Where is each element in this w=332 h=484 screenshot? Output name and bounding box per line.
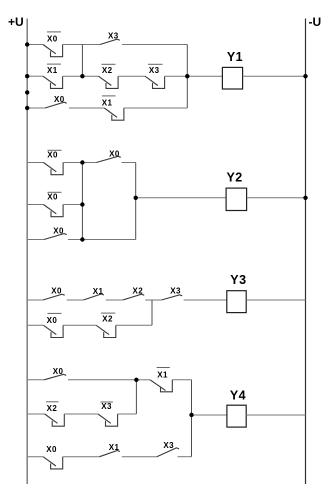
svg-text:X3: X3 bbox=[149, 66, 160, 75]
contact X0 NC (rung4 branchC) bbox=[43, 457, 63, 469]
svg-text:X0: X0 bbox=[46, 445, 57, 454]
label X0 (rung2 branchB) bbox=[47, 192, 61, 201]
svg-text:X1: X1 bbox=[93, 287, 104, 296]
contact X0 NO (rung4 branchA) bbox=[44, 374, 66, 380]
contact X0 NC (rung1 branch1) bbox=[43, 45, 63, 57]
contact X1 NO (rung3 branchA) bbox=[83, 294, 104, 300]
wire rung1 branch2: X2 to X3 bbox=[118, 75, 145, 77]
contact X0 NC (rung3 branchB) bbox=[44, 325, 64, 337]
label X0 (rung3 branchB) bbox=[47, 313, 62, 325]
svg-text:X0: X0 bbox=[47, 193, 58, 202]
wire rung3 branchB: X2 to corner x152 bbox=[116, 324, 152, 326]
wire rung3 branchA: rail to contact X0 bbox=[27, 299, 43, 301]
label X1 (rung4 branchC) bbox=[109, 443, 120, 452]
label X3 (rung4 branchC) bbox=[163, 441, 174, 450]
wire vertical link x191 (rung4) bbox=[191, 380, 193, 457]
contact X2 NC (rung3 branchB) bbox=[96, 325, 116, 337]
wire rung4: coil Y4 to right rail bbox=[246, 414, 305, 416]
junction branchA-vertical x82 (rung2) bbox=[80, 160, 84, 164]
svg-text:X2: X2 bbox=[102, 66, 113, 75]
wire rung2 branchA: X0NC to X0NO bbox=[63, 162, 96, 164]
junction rail-branch3 (rung1) bbox=[25, 106, 29, 110]
svg-text:X3: X3 bbox=[170, 287, 181, 296]
contact X1 NC (rung1 branch2) bbox=[43, 76, 63, 88]
wire rung2 branchC: rail to contact X0 bbox=[27, 239, 44, 241]
wire rung1 branch2: X3 to coil Y1 bbox=[165, 75, 223, 77]
label X2 (rung3 branchA) bbox=[133, 287, 144, 296]
label -U (right rail) bbox=[309, 15, 322, 29]
svg-text:Y3: Y3 bbox=[230, 273, 246, 287]
svg-text:X0: X0 bbox=[47, 151, 58, 160]
wire rung4 branchC: rail to contact X0 bbox=[27, 456, 43, 458]
contact X1 NO (rung4 branchC) bbox=[100, 451, 121, 457]
junction branchA-vertical x136 (rung4) bbox=[134, 378, 138, 382]
node output tap x135 (rung2) bbox=[134, 196, 138, 200]
label X0 (rung4 branchC) bbox=[46, 445, 57, 454]
contact X0 NC (rung2 branchA) bbox=[44, 163, 64, 175]
label X1 (rung1 branch2) bbox=[47, 64, 61, 75]
wire rung4 branchB: rail to contact X2 bbox=[27, 413, 45, 415]
wire rung3 branchA: X0 to X1 bbox=[67, 299, 84, 301]
wire vertical link x82 (rung2) bbox=[81, 163, 83, 240]
wire rung4 branchA: X1 to corner x191 bbox=[172, 379, 191, 381]
wire rung4 output to coil Y4 bbox=[192, 414, 227, 416]
contact X3 NC (rung1 branch2) bbox=[145, 76, 165, 88]
label X0 (rung3 branchA) bbox=[51, 287, 62, 296]
svg-text:-U: -U bbox=[309, 15, 322, 29]
wire rung3 branchA: X3 to coil Y3 bbox=[184, 299, 227, 301]
junction rail-branch2 (rung1) bbox=[25, 74, 29, 78]
label Y3 bbox=[230, 273, 246, 287]
contact X0 NO (rung1 branch3) bbox=[45, 102, 67, 108]
svg-text:X2: X2 bbox=[133, 287, 144, 296]
label X1 (rung3 branchA) bbox=[93, 287, 104, 296]
label Y4 bbox=[230, 389, 246, 403]
node B: output join x187 (rung1) bbox=[185, 74, 189, 78]
right power rail -U (vertical bus) bbox=[305, 19, 307, 484]
label X0 (rung4 branchA) bbox=[53, 367, 64, 376]
wire rung4 branchA: rail to contact X0 bbox=[27, 379, 44, 381]
wire rung2: coil Y2 to right rail bbox=[247, 197, 306, 199]
wire rung4 branchB: X3 to vertical x136 bbox=[118, 413, 137, 415]
svg-text:X3: X3 bbox=[101, 402, 112, 411]
svg-text:X3: X3 bbox=[163, 441, 174, 450]
svg-text:X1: X1 bbox=[102, 98, 113, 107]
wire rung2 branchA: X0 to right corner bbox=[122, 162, 136, 164]
svg-text:X3: X3 bbox=[108, 32, 119, 41]
coil Y1 bbox=[222, 67, 242, 89]
label Y1 bbox=[227, 50, 243, 64]
wire vertical link x136 (rung4) bbox=[135, 380, 137, 414]
svg-text:+U: +U bbox=[8, 15, 24, 29]
svg-text:X0: X0 bbox=[47, 34, 58, 43]
label X0 (rung2 branchA) bbox=[47, 150, 61, 159]
junction on left rail y92 (rung1) bbox=[25, 90, 29, 94]
label X1 (rung1 branch3) bbox=[102, 96, 116, 107]
contact X0 NO (rung2 branchA) bbox=[96, 156, 121, 162]
svg-text:X1: X1 bbox=[109, 443, 120, 452]
junction rail-branch1 (rung1) bbox=[25, 42, 29, 46]
contact X2 NC (rung4 branchB) bbox=[45, 414, 65, 426]
svg-text:X0: X0 bbox=[53, 367, 64, 376]
left power rail +U (vertical bus) bbox=[26, 19, 28, 484]
svg-text:X0: X0 bbox=[51, 287, 62, 296]
coil Y3 bbox=[227, 291, 246, 313]
wire rung2 branchC: X0 to right corner bbox=[68, 239, 136, 241]
wire rung1 branch2: rail to contact X1 bbox=[27, 75, 43, 77]
svg-text:X0: X0 bbox=[109, 149, 120, 158]
contact X3 NC (rung4 branchB) bbox=[98, 414, 118, 426]
label X0 (rung1 branch3) bbox=[54, 95, 65, 104]
junction branchC-vertical x82 (rung2) bbox=[80, 237, 84, 241]
wire rung1 branch1: X0 to X3 bbox=[63, 44, 100, 46]
contact X3 NO (rung1 branch1) bbox=[100, 39, 120, 44]
wire rung2 branchA: rail to contact X0 bbox=[27, 162, 43, 164]
wire rung4 branchB: X2 to X3 bbox=[64, 413, 98, 415]
label X3 (rung1 branch2) bbox=[148, 64, 163, 75]
junction coil Y1 to right rail bbox=[303, 74, 307, 78]
wire rung3 branchA: X2 to X3 bbox=[145, 299, 162, 301]
wire rung1 branch1: rail to contact X0 bbox=[27, 44, 43, 46]
contact X3 NO (rung3 branchA) bbox=[162, 295, 183, 300]
label Y2 bbox=[226, 170, 242, 184]
wire rung2 output to coil Y2 bbox=[136, 197, 226, 199]
junction branchB-vertical x82 (rung2) bbox=[80, 202, 84, 206]
wire rung3: coil Y3 to right rail bbox=[246, 299, 305, 301]
svg-text:X2: X2 bbox=[102, 314, 113, 323]
label +U (left rail) bbox=[8, 15, 24, 29]
svg-text:X0: X0 bbox=[53, 227, 64, 236]
wire rung4 branchC: X0 to X1 bbox=[63, 456, 100, 458]
wire rung1 branch1: X3 to right corner bbox=[122, 44, 187, 46]
label X3 (rung4 branchB) bbox=[101, 402, 114, 411]
wire rung4 branchA: dot to contact X1 bbox=[136, 379, 150, 381]
label X0 (rung1 branch1) bbox=[47, 32, 61, 43]
label X1 (rung4 branchA) bbox=[157, 368, 170, 380]
junction coil Y2 to right rail bbox=[303, 196, 307, 200]
wire rung3 branchB: X0 to X2 bbox=[63, 324, 96, 326]
wire rung4 branchC: X3 to vertical x191 bbox=[178, 456, 192, 458]
svg-text:Y1: Y1 bbox=[227, 50, 243, 64]
label X2 (rung1 branch2) bbox=[102, 64, 116, 75]
wire vertical link x152 (rung3) bbox=[151, 300, 153, 325]
wire vertical link x135 (rung2) bbox=[135, 163, 137, 240]
contact X0 NO (rung2 branchC) bbox=[44, 234, 67, 240]
svg-text:Y2: Y2 bbox=[226, 170, 242, 184]
wire rung1: coil Y1 to right rail bbox=[243, 75, 306, 77]
wire rung1 branch3: rail to contact X0 bbox=[27, 107, 45, 109]
wire rung1 branch3: X1 to join x187 bbox=[124, 107, 187, 109]
wire vertical join x187 (rung1) bbox=[186, 45, 188, 109]
wire rung4 branchA: X0 to dot x136 bbox=[68, 379, 136, 381]
node output join x191 (rung4) bbox=[189, 413, 193, 417]
wire rung2 branchB: rail to contact X0 bbox=[27, 204, 43, 206]
svg-text:X2: X2 bbox=[47, 404, 58, 413]
contact X1 NC (rung1 branch3) bbox=[104, 108, 124, 120]
label X3 (rung1 branch1) bbox=[108, 32, 119, 41]
contact X2 NC (rung1 branch2) bbox=[99, 76, 119, 88]
label X2 (rung4 branchB) bbox=[46, 402, 59, 413]
label X0 (rung2 branchA NO) bbox=[109, 149, 120, 158]
svg-text:X0: X0 bbox=[47, 316, 58, 325]
svg-text:X1: X1 bbox=[157, 370, 168, 379]
coil Y4 bbox=[227, 405, 246, 427]
coil Y2 bbox=[226, 188, 247, 210]
contact X3 NO (rung4 branchC) bbox=[157, 448, 179, 457]
wire link branch1-branch2 at x82 (rung1) bbox=[81, 45, 83, 77]
label X3 (rung3 branchA) bbox=[170, 287, 181, 296]
contact X2 NO (rung3 branchA) bbox=[123, 294, 145, 300]
wire rung4 branchC: X1 to X3 bbox=[122, 456, 157, 458]
svg-text:Y4: Y4 bbox=[230, 389, 246, 403]
contact X0 NC (rung2 branchB) bbox=[44, 205, 64, 217]
label X0 (rung2 branchC) bbox=[53, 227, 64, 236]
wire rung1 branch3: X0 to X1 bbox=[69, 107, 104, 109]
label X2 (rung3 branchB) bbox=[101, 313, 115, 323]
node A: branches 1+2 join x82 (rung1) bbox=[80, 74, 84, 78]
wire rung3 branchA: X1 to X2 bbox=[106, 299, 123, 301]
wire rung2 branchB: X0 to vertical x82 bbox=[63, 204, 82, 206]
wire rung1 branch2: X1 to X2 bbox=[63, 75, 99, 77]
svg-text:X0: X0 bbox=[54, 95, 65, 104]
contact X1 NC (rung4 branchA) bbox=[150, 380, 172, 392]
wire rung3 branchB: rail to contact X0 bbox=[27, 324, 43, 326]
contact X0 NO (rung3 branchA) bbox=[43, 294, 65, 300]
svg-text:X1: X1 bbox=[47, 66, 58, 75]
